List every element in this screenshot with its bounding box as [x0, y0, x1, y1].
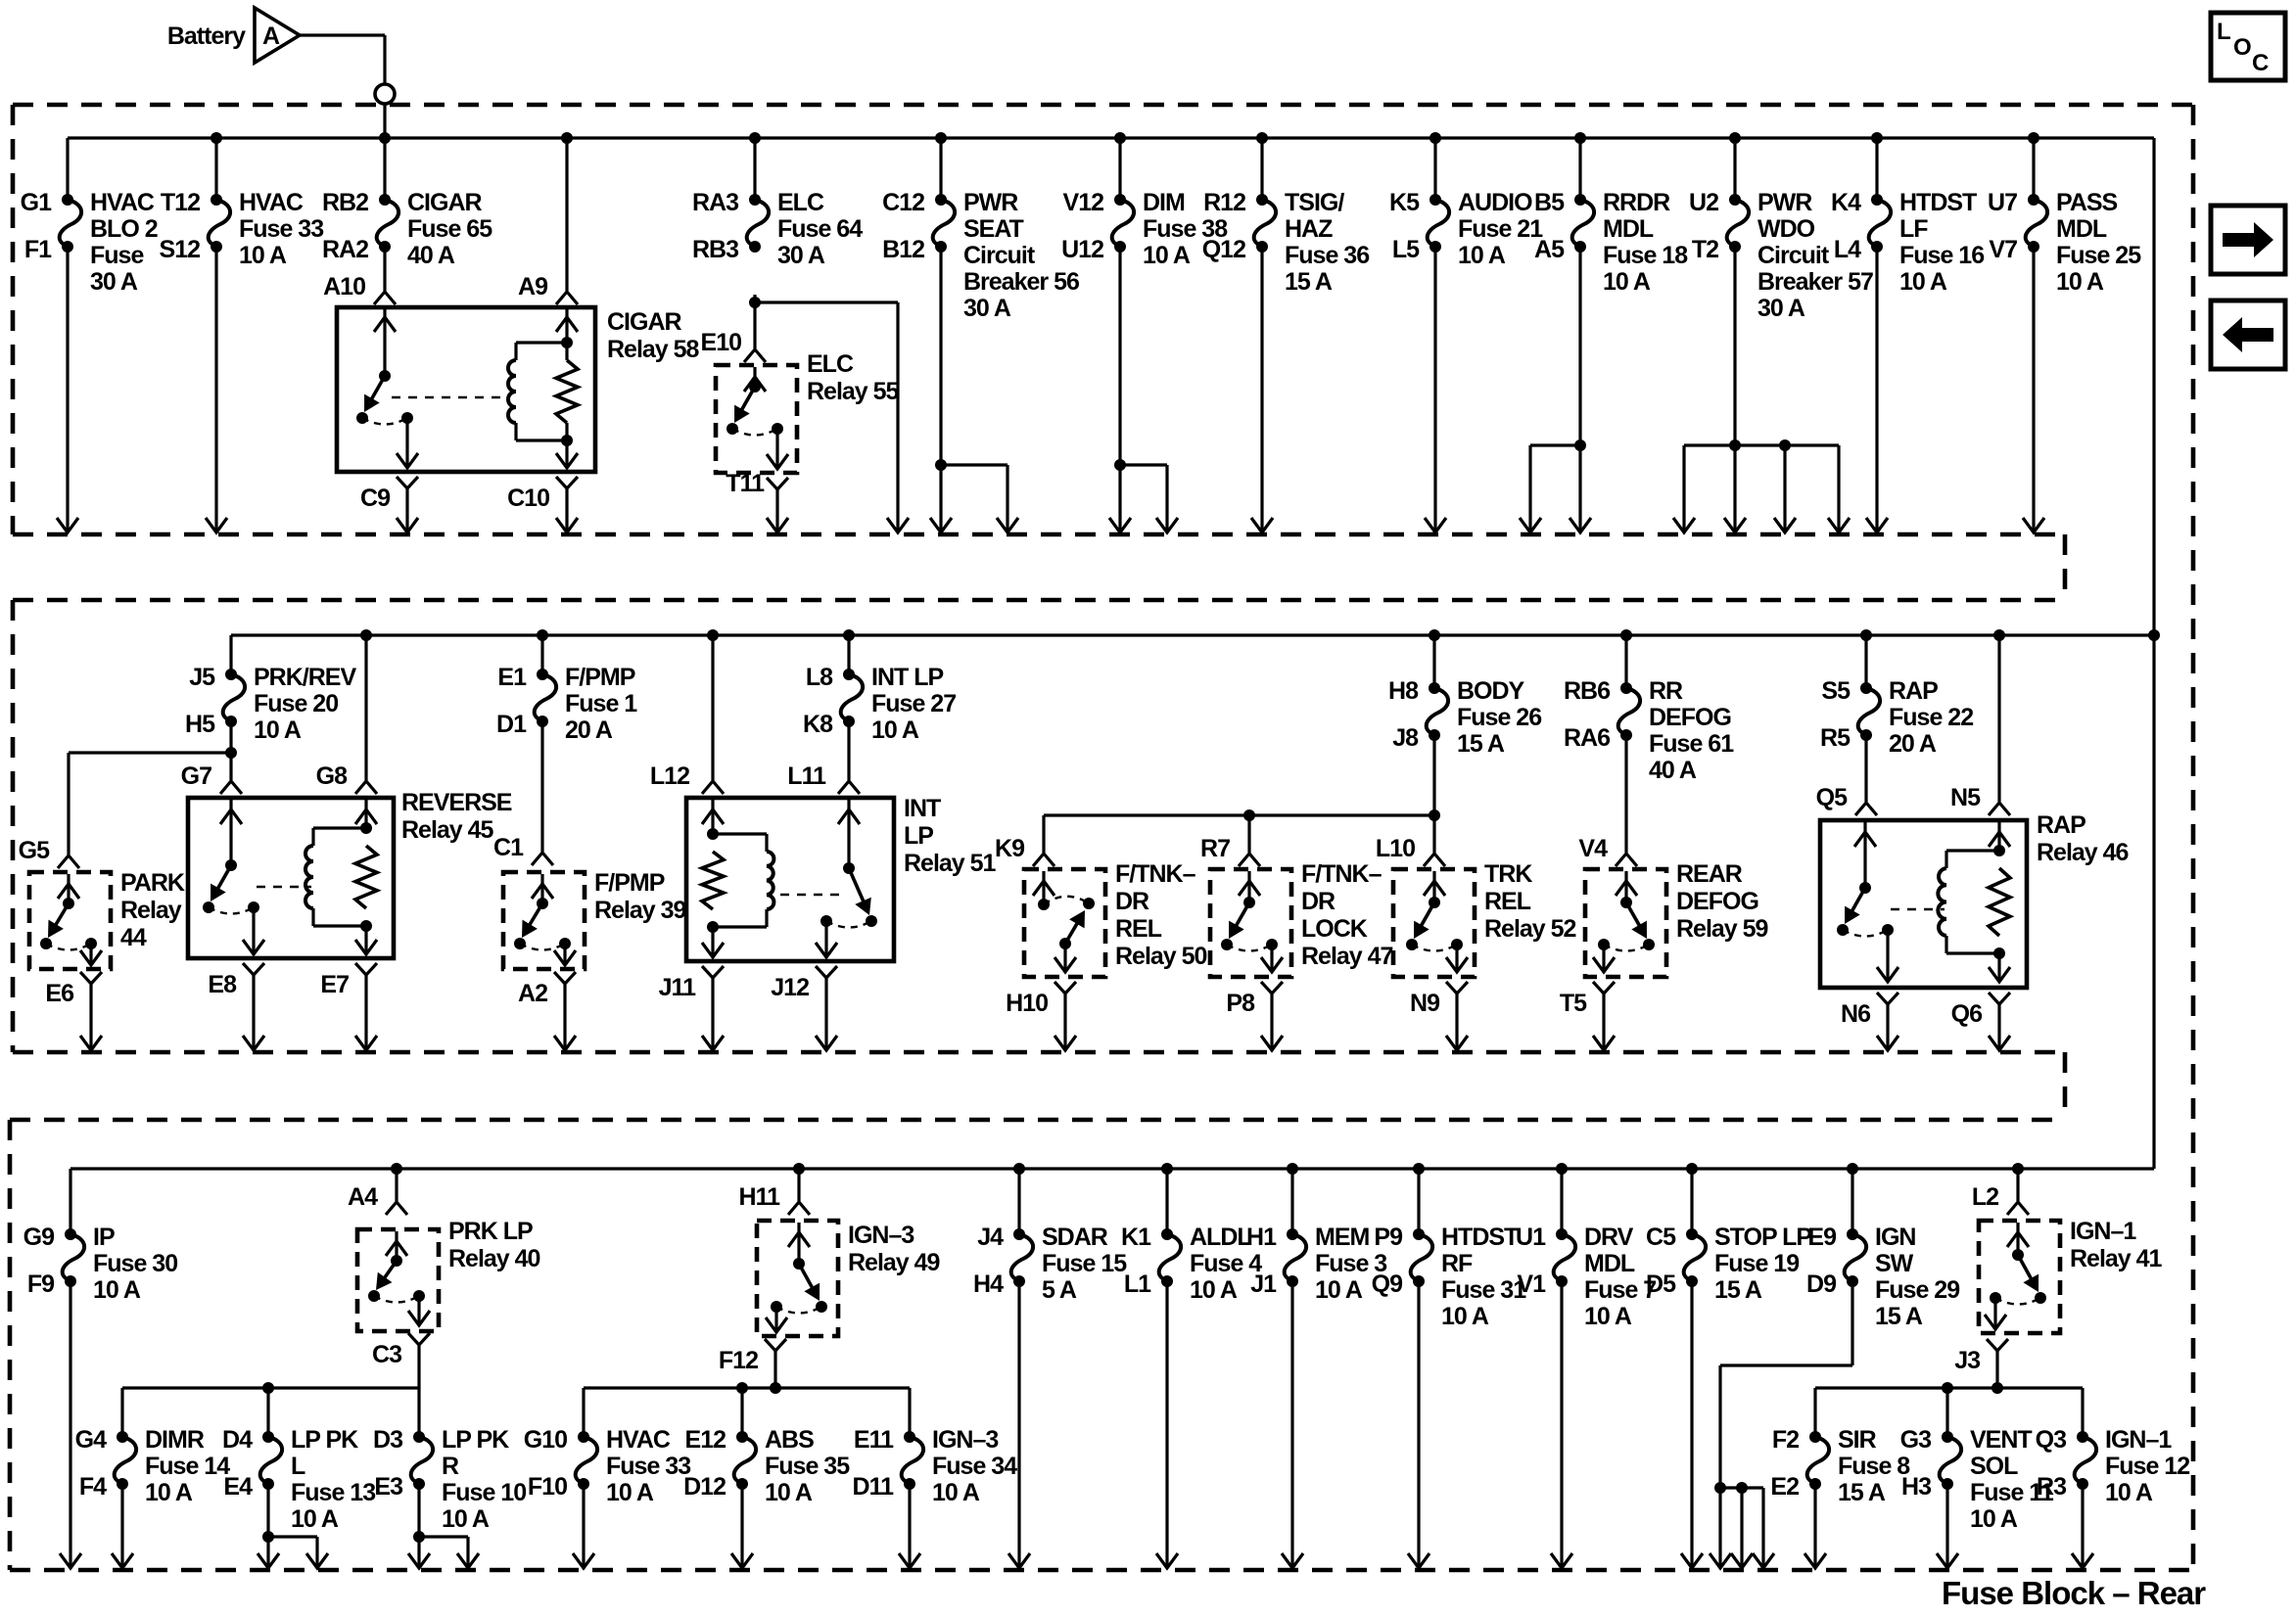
svg-text:HAZ: HAZ [1285, 215, 1333, 243]
fuse SIR Fuse 8 [1809, 1431, 1821, 1443]
svg-text:V7: V7 [1989, 236, 2017, 263]
svg-text:TRK: TRK [1484, 860, 1532, 888]
wire fuse column to out-arrow x=1595 [1560, 1281, 1563, 1567]
svg-text:Fuse 61: Fuse 61 [1649, 730, 1734, 758]
wire fuse column to out-arrow x=72 [69, 1281, 71, 1567]
fuse DIMR Fuse 14 [117, 1431, 128, 1443]
wire PWR SEAT branch [939, 248, 942, 531]
svg-text:R7: R7 [1200, 835, 1230, 862]
wire fuse column to out-arrow x=221 [214, 247, 217, 531]
svg-text:E10: E10 [701, 329, 742, 356]
svg-text:H3: H3 [1901, 1473, 1931, 1501]
svg-text:Fuse 18: Fuse 18 [1603, 242, 1688, 269]
coil and resistor in RAP Relay 46 [1997, 822, 2000, 851]
relay box IGN-1 Relay 41 [1979, 1221, 2060, 1333]
svg-text:K9: K9 [995, 835, 1024, 862]
svg-text:Relay 40: Relay 40 [448, 1245, 540, 1272]
svg-text:N6: N6 [1841, 1000, 1870, 1028]
connector J11 [702, 966, 724, 978]
svg-text:C12: C12 [882, 189, 924, 216]
relay box INT LP Relay 51 [686, 798, 894, 961]
svg-text:K5: K5 [1389, 189, 1420, 216]
switch in RAP Relay 46 [1863, 822, 1866, 888]
svg-text:H11: H11 [739, 1183, 781, 1211]
svg-text:Fuse 31: Fuse 31 [1441, 1276, 1526, 1304]
connector L10 [1424, 854, 1445, 866]
svg-text:F/PMP: F/PMP [565, 664, 635, 691]
fuse HVAC BLO 2 Fuse 30A [66, 138, 69, 200]
svg-text:MEM: MEM [1315, 1224, 1370, 1251]
svg-text:RB3: RB3 [692, 236, 738, 263]
svg-text:20 A: 20 A [565, 716, 613, 744]
svg-text:P9: P9 [1374, 1224, 1402, 1251]
svg-text:N5: N5 [1950, 784, 1981, 811]
svg-text:P8: P8 [1226, 990, 1255, 1017]
relay box F/PMP Relay 39 [503, 872, 585, 969]
svg-text:V4: V4 [1578, 835, 1608, 862]
svg-text:10 A: 10 A [291, 1505, 339, 1533]
fuse VENT SOL Fuse 11 [1942, 1431, 1953, 1443]
wire fuse column to out-arrow x=2077 [2032, 247, 2035, 531]
svg-text:Breaker 57: Breaker 57 [1757, 268, 1873, 296]
wire right feed drop to lower buses [2152, 138, 2155, 1169]
svg-text:J3: J3 [1954, 1347, 1980, 1374]
svg-text:E2: E2 [1770, 1473, 1799, 1501]
svg-text:RB6: RB6 [1564, 677, 1610, 705]
svg-text:SOL: SOL [1970, 1453, 2018, 1480]
dashed link INT LP relay [780, 894, 840, 896]
svg-text:G4: G4 [75, 1426, 107, 1454]
svg-text:15 A: 15 A [1285, 268, 1333, 296]
fuse PASS MDL Fuse 25 [2028, 132, 2039, 144]
svg-text:K4: K4 [1831, 189, 1861, 216]
switch in TRK REL Relay 52 [1432, 871, 1435, 902]
svg-text:G8: G8 [316, 762, 348, 790]
svg-text:A: A [262, 23, 280, 50]
svg-text:BODY: BODY [1457, 677, 1525, 705]
svg-text:Relay 39: Relay 39 [594, 897, 686, 924]
svg-text:10 A: 10 A [932, 1479, 980, 1506]
svg-text:5 A: 5 A [1042, 1276, 1077, 1304]
svg-text:C10: C10 [507, 485, 549, 512]
svg-text:RA2: RA2 [322, 236, 368, 263]
svg-text:C9: C9 [360, 485, 390, 512]
svg-text:E12: E12 [685, 1426, 726, 1454]
svg-text:DR: DR [1115, 888, 1149, 915]
fuse AUDIO Fuse 21 [1429, 132, 1441, 144]
svg-text:Fuse 35: Fuse 35 [765, 1453, 850, 1480]
svg-text:L11: L11 [787, 762, 826, 790]
fuse TSIG/HAZ Fuse 36 [1256, 132, 1268, 144]
svg-text:H1: H1 [1246, 1224, 1277, 1251]
svg-text:Fuse 20: Fuse 20 [254, 690, 338, 717]
fuse LP PK L Fuse 13 [262, 1431, 274, 1443]
svg-text:D9: D9 [1806, 1270, 1836, 1298]
svg-text:Fuse Block – Rear: Fuse Block – Rear [1942, 1575, 2206, 1611]
connector C10 [556, 477, 578, 488]
fuse PWR SEAT Circuit Breaker 56 [935, 132, 947, 144]
svg-text:N9: N9 [1410, 990, 1439, 1017]
switch in ELC Relay 55 [753, 367, 756, 387]
fuse F/PMP Fuse 1 [537, 629, 548, 641]
svg-text:REL: REL [1484, 888, 1531, 915]
connector E7 [355, 963, 377, 975]
battery symbol A [255, 8, 300, 63]
svg-text:IP: IP [93, 1224, 115, 1251]
svg-text:C1: C1 [493, 834, 524, 861]
svg-text:A4: A4 [348, 1183, 378, 1211]
fuse DIM Fuse 38 [1114, 132, 1126, 144]
svg-text:E6: E6 [45, 980, 73, 1007]
svg-text:H8: H8 [1388, 677, 1419, 705]
svg-text:A10: A10 [323, 273, 365, 300]
svg-text:Circuit: Circuit [1757, 242, 1830, 269]
svg-text:D4: D4 [222, 1426, 253, 1454]
connector N6 [1877, 993, 1898, 1004]
fuse SDAR Fuse 15 [1013, 1163, 1025, 1175]
switch in IGN-3 Relay 49 [797, 1223, 800, 1264]
svg-text:Fuse 15: Fuse 15 [1042, 1250, 1127, 1277]
svg-text:Fuse 12: Fuse 12 [2105, 1453, 2189, 1480]
svg-text:S12: S12 [160, 236, 201, 263]
svg-text:L5: L5 [1392, 236, 1420, 263]
svg-text:Fuse 10: Fuse 10 [442, 1479, 526, 1506]
wire left lamp distribution bar [122, 1386, 419, 1389]
connector A4 [391, 1163, 402, 1175]
wire fuse column to out-arrow x=1041 [1017, 1281, 1020, 1567]
svg-text:WDO: WDO [1757, 215, 1815, 243]
svg-text:10 A: 10 A [1584, 1303, 1632, 1330]
svg-text:REVERSE: REVERSE [401, 789, 512, 816]
svg-text:15 A: 15 A [1875, 1303, 1923, 1330]
connector V4 [1616, 854, 1637, 866]
wire bottom feed bus [70, 1167, 2154, 1170]
svg-text:Fuse: Fuse [90, 242, 144, 269]
svg-text:ELC: ELC [807, 350, 854, 378]
wire IGN-1 distribution bar [1815, 1386, 2083, 1389]
svg-text:C3: C3 [372, 1341, 401, 1368]
connector Q6 [1989, 993, 2010, 1004]
svg-text:Fuse 14: Fuse 14 [145, 1453, 230, 1480]
svg-text:C5: C5 [1646, 1224, 1676, 1251]
svg-text:10 A: 10 A [442, 1505, 490, 1533]
fuse LP PK R Fuse 10 [413, 1431, 425, 1443]
svg-text:E1: E1 [497, 664, 527, 691]
section border: bottom box dashed frame [10, 1118, 2065, 1123]
relay box F/TNK-DR REL Relay 50 [1024, 869, 1105, 977]
svg-text:B5: B5 [1534, 189, 1565, 216]
svg-text:10 A: 10 A [1899, 268, 1947, 296]
svg-text:30 A: 30 A [1757, 295, 1805, 322]
switch in INT LP Relay 51 [847, 800, 850, 868]
wire fuse column to out-arrow x=1466 [1433, 247, 1436, 531]
svg-text:Fuse 8: Fuse 8 [1838, 1453, 1910, 1480]
relay box REAR DEFOG Relay 59 [1585, 869, 1666, 977]
connector H10 [1054, 982, 1076, 993]
switch in REVERSE Relay 45 [229, 800, 232, 865]
svg-text:E3: E3 [374, 1473, 402, 1501]
svg-text:HVAC: HVAC [606, 1426, 671, 1454]
dashed link CIGAR relay [392, 396, 501, 398]
fuse DRV MDL Fuse 7 [1556, 1163, 1568, 1175]
section border: middle box dashed frame [13, 598, 2065, 603]
fuse HTDST LF Fuse 16 [1871, 132, 1883, 144]
svg-text:10 A: 10 A [145, 1479, 193, 1506]
svg-text:30 A: 30 A [963, 295, 1011, 322]
svg-text:R12: R12 [1203, 189, 1245, 216]
connector A9 [561, 132, 573, 144]
svg-text:Fuse 22: Fuse 22 [1889, 704, 1973, 731]
svg-text:Fuse 27: Fuse 27 [871, 690, 956, 717]
svg-text:Fuse 16: Fuse 16 [1899, 242, 1984, 269]
svg-text:SDAR: SDAR [1042, 1224, 1108, 1251]
svg-text:U12: U12 [1061, 236, 1103, 263]
fuse BODY Fuse 26 [1429, 629, 1440, 641]
svg-text:L4: L4 [1834, 236, 1861, 263]
svg-text:DEFOG: DEFOG [1676, 888, 1758, 915]
svg-text:RR: RR [1649, 677, 1683, 705]
wire PRK/REV branch to PARK relay [229, 721, 232, 780]
connector T11 [767, 478, 788, 489]
svg-text:TSIG/: TSIG/ [1285, 189, 1344, 216]
svg-text:MDL: MDL [1584, 1250, 1635, 1277]
fuse CIGAR Fuse 65 wire to relay [383, 248, 386, 291]
svg-text:RAP: RAP [1889, 677, 1938, 705]
svg-text:10 A: 10 A [1458, 242, 1506, 269]
wire battery to bus [300, 33, 385, 36]
relay box TRK REL Relay 52 [1393, 869, 1475, 977]
wire DIM branch [1118, 248, 1121, 531]
fuse IGN-3 Fuse 34 [904, 1431, 915, 1443]
svg-text:30 A: 30 A [777, 242, 825, 269]
svg-text:L8: L8 [806, 664, 833, 691]
svg-text:A5: A5 [1534, 236, 1565, 263]
fuse HVAC Fuse 33 bottom [578, 1431, 589, 1443]
relay box ELC Relay 55 [716, 365, 797, 473]
wire fuse column to out-arrow x=69 [66, 247, 69, 531]
fuse IGN-1 Fuse 12 [2077, 1431, 2088, 1443]
coil and resistor in REVERSE Relay 45 [364, 800, 367, 828]
svg-text:F9: F9 [27, 1270, 54, 1298]
wire fuse column to out-arrow x=1289 [1260, 247, 1263, 531]
connector N5 [1993, 629, 2005, 641]
fuse ALDL Fuse 4 [1161, 1163, 1173, 1175]
svg-text:Fuse 33: Fuse 33 [606, 1453, 690, 1480]
connector L2 [2012, 1163, 2024, 1175]
svg-text:U1: U1 [1516, 1224, 1546, 1251]
svg-text:K1: K1 [1121, 1224, 1151, 1251]
svg-text:J12: J12 [771, 974, 809, 1001]
svg-text:E11: E11 [854, 1426, 894, 1454]
svg-text:10 A: 10 A [871, 716, 919, 744]
svg-text:F/TNK–: F/TNK– [1301, 860, 1382, 888]
svg-text:L: L [2217, 19, 2230, 45]
svg-text:T12: T12 [161, 189, 200, 216]
fuse RAP Fuse 22 [1860, 629, 1872, 641]
svg-text:15 A: 15 A [1714, 1276, 1762, 1304]
svg-text:MDL: MDL [1603, 215, 1654, 243]
svg-text:H10: H10 [1006, 990, 1048, 1017]
wire RRDR MDL branch [1578, 248, 1581, 531]
svg-text:J5: J5 [189, 664, 215, 691]
fuse INT LP Fuse 27 [843, 629, 855, 641]
svg-text:K8: K8 [803, 711, 833, 738]
svg-text:DIMR: DIMR [145, 1426, 205, 1454]
svg-text:H5: H5 [185, 711, 215, 738]
connector T5 [1593, 982, 1615, 993]
svg-text:L12: L12 [650, 762, 689, 790]
svg-text:Fuse 30: Fuse 30 [93, 1250, 177, 1277]
svg-text:HTDST: HTDST [1899, 189, 1977, 216]
svg-text:F1: F1 [24, 236, 52, 263]
svg-text:S5: S5 [1821, 677, 1851, 705]
svg-text:L: L [291, 1453, 305, 1480]
connector L11 [838, 781, 860, 794]
svg-text:C: C [2252, 50, 2269, 76]
svg-text:G5: G5 [19, 837, 50, 864]
svg-text:ALDL: ALDL [1190, 1224, 1251, 1251]
wire F/PMP fuse to relay [540, 721, 543, 852]
connector J12 [816, 966, 837, 978]
svg-text:10 A: 10 A [93, 1276, 141, 1304]
svg-text:Fuse 1: Fuse 1 [565, 690, 637, 717]
svg-text:Q9: Q9 [1372, 1270, 1402, 1298]
svg-text:10 A: 10 A [2056, 268, 2104, 296]
svg-text:Fuse 19: Fuse 19 [1714, 1250, 1799, 1277]
svg-text:RRDR: RRDR [1603, 189, 1670, 216]
fuse ABS Fuse 35 [736, 1431, 748, 1443]
svg-text:HVAC: HVAC [90, 189, 155, 216]
svg-text:Relay 58: Relay 58 [607, 336, 700, 363]
wire middle feed bus [231, 633, 2154, 636]
svg-text:MDL: MDL [2056, 215, 2107, 243]
connector Q5 [1855, 803, 1877, 815]
svg-text:D1: D1 [496, 711, 527, 738]
svg-text:Relay 49: Relay 49 [848, 1249, 940, 1276]
svg-text:HTDST: HTDST [1441, 1224, 1519, 1251]
svg-text:PRK/REV: PRK/REV [254, 664, 356, 691]
svg-text:PASS: PASS [2056, 189, 2118, 216]
svg-text:15 A: 15 A [1457, 730, 1505, 758]
connector C9 [397, 477, 418, 488]
wire fuse column to out-arrow x=1728 [1690, 1281, 1693, 1567]
svg-text:V12: V12 [1063, 189, 1104, 216]
svg-text:10 A: 10 A [1315, 1276, 1363, 1304]
svg-text:Fuse 25: Fuse 25 [2056, 242, 2141, 269]
svg-text:DRV: DRV [1584, 1224, 1634, 1251]
connector J3 [1987, 1339, 2008, 1351]
svg-text:L2: L2 [1972, 1183, 1998, 1211]
svg-text:PWR: PWR [963, 189, 1018, 216]
svg-text:RA6: RA6 [1564, 724, 1610, 752]
connector F12 [765, 1339, 786, 1351]
svg-text:Relay 51: Relay 51 [904, 850, 997, 877]
svg-text:44: 44 [120, 924, 147, 951]
fuse RR DEFOG Fuse 61 [1620, 629, 1632, 641]
svg-text:40 A: 40 A [1649, 757, 1697, 784]
svg-text:O: O [2233, 34, 2251, 61]
svg-text:AUDIO: AUDIO [1458, 189, 1532, 216]
svg-text:Fuse 64: Fuse 64 [777, 215, 863, 243]
svg-text:Circuit: Circuit [963, 242, 1036, 269]
connector G7 [220, 781, 242, 794]
svg-text:R5: R5 [1820, 724, 1851, 752]
svg-text:SEAT: SEAT [963, 215, 1024, 243]
svg-text:CIGAR: CIGAR [607, 308, 682, 336]
svg-text:Fuse 33: Fuse 33 [239, 215, 323, 243]
svg-text:LP PK: LP PK [442, 1426, 509, 1454]
relay box RAP Relay 46 [1820, 820, 2027, 988]
svg-text:G9: G9 [23, 1224, 54, 1251]
wire INT LP fuse to relay [847, 721, 850, 780]
svg-text:E9: E9 [1807, 1224, 1836, 1251]
svg-text:CIGAR: CIGAR [407, 189, 483, 216]
svg-text:30 A: 30 A [90, 268, 138, 296]
svg-text:IGN–3: IGN–3 [932, 1426, 998, 1454]
svg-text:Relay 41: Relay 41 [2070, 1245, 2163, 1272]
svg-text:STOP LP: STOP LP [1714, 1224, 1811, 1251]
svg-text:G10: G10 [524, 1426, 567, 1454]
svg-text:RF: RF [1441, 1250, 1473, 1277]
svg-text:ELC: ELC [777, 189, 824, 216]
svg-text:T5: T5 [1560, 990, 1587, 1017]
svg-text:LP PK: LP PK [291, 1426, 358, 1454]
fuse CIGAR Fuse 65 [379, 132, 391, 144]
switch in CIGAR Relay 58 [383, 309, 386, 376]
grommet circle at border [375, 84, 395, 104]
fuse RRDR MDL Fuse 18 [1574, 132, 1586, 144]
svg-text:Relay 52: Relay 52 [1484, 915, 1576, 943]
switch in REAR DEFOG Relay 59 [1624, 871, 1627, 902]
svg-text:R: R [442, 1453, 459, 1480]
svg-text:Fuse 29: Fuse 29 [1875, 1276, 1959, 1304]
svg-text:Fuse 26: Fuse 26 [1457, 704, 1541, 731]
fuse PWR WDO Circuit Breaker 57 [1729, 132, 1741, 144]
svg-text:ABS: ABS [765, 1426, 814, 1454]
svg-text:Relay 59: Relay 59 [1676, 915, 1768, 943]
connector K9 [1033, 854, 1054, 866]
svg-text:10 A: 10 A [254, 716, 302, 744]
relay box PARK Relay 44 [29, 872, 111, 969]
connector C1 [532, 853, 553, 865]
svg-text:F4: F4 [79, 1473, 107, 1501]
svg-text:R3: R3 [2037, 1473, 2066, 1501]
fuse MEM Fuse 3 [1287, 1163, 1298, 1175]
fuse ELC Fuse 64 [749, 132, 761, 144]
svg-text:Relay: Relay [120, 897, 182, 924]
svg-text:10 A: 10 A [239, 242, 287, 269]
svg-text:VENT: VENT [1970, 1426, 2032, 1454]
connector E6 [80, 972, 102, 984]
svg-text:Relay 47: Relay 47 [1301, 943, 1393, 970]
svg-text:J11: J11 [659, 974, 696, 1001]
connector A2 [554, 972, 576, 984]
connector R7 [1239, 854, 1260, 866]
wire RR DEFOG fuse to relay [1624, 735, 1627, 853]
svg-text:Q6: Q6 [1951, 1000, 1982, 1028]
wire RAP fuse to relay [1864, 735, 1867, 802]
connector C3 [408, 1333, 430, 1345]
svg-text:10 A: 10 A [1603, 268, 1651, 296]
connector G8 [360, 629, 372, 641]
svg-text:F10: F10 [528, 1473, 567, 1501]
wire fuse column to out-arrow x=1917 [1875, 247, 1878, 531]
relay box IGN-3 Relay 49 [757, 1221, 838, 1336]
svg-text:L10: L10 [1376, 835, 1415, 862]
fuse IP Fuse 30 [69, 1169, 71, 1234]
LOC reference box [2211, 13, 2285, 80]
svg-text:G3: G3 [1900, 1426, 1931, 1454]
